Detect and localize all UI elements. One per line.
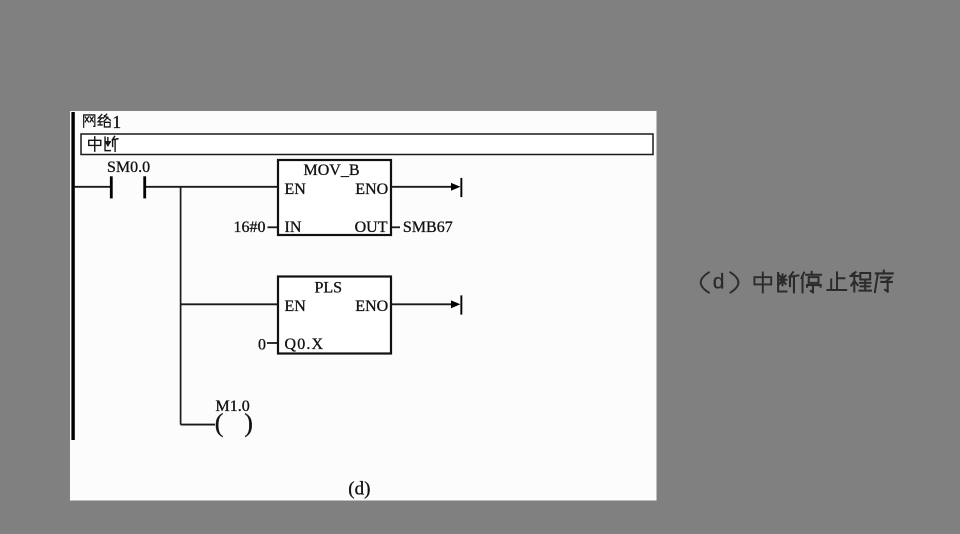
block PLS: [278, 277, 391, 354]
svg-text:OUT: OUT: [355, 219, 388, 236]
arrow terminator rung 2: [451, 300, 460, 308]
white panel: [70, 111, 657, 501]
wire ENO to arrow (rung 2): [391, 303, 453, 305]
label 网络1 (Network 1): [84, 114, 111, 127]
svg-text:16#0: 16#0: [234, 219, 266, 236]
branch vertical wire: [180, 187, 182, 425]
comment box 中断: [81, 134, 653, 155]
svg-text:SM0.0: SM0.0: [107, 159, 150, 176]
wire rail to contact: [75, 186, 111, 188]
svg-text:(d): (d): [348, 479, 370, 500]
pin dash IN: [268, 226, 278, 228]
pin dash OUT: [392, 226, 400, 228]
svg-text:1: 1: [112, 112, 121, 132]
pin dash Q0.X: [267, 342, 277, 344]
svg-text:d: d: [713, 271, 725, 294]
svg-text:): ): [244, 408, 253, 437]
svg-text:ENO: ENO: [355, 181, 388, 198]
arrow terminator rung 1: [451, 183, 460, 191]
svg-text:SMB67: SMB67: [403, 219, 453, 236]
wire branch to coil (rung 3): [181, 424, 215, 426]
contact SM0.0 (normally open): [110, 176, 113, 198]
svg-text:0: 0: [258, 336, 266, 353]
svg-text:EN: EN: [285, 298, 307, 315]
svg-text:(: (: [215, 408, 224, 437]
wire contact to MOV_B EN: [146, 186, 278, 188]
svg-text:MOV_B: MOV_B: [304, 162, 360, 179]
power rail (left bus bar): [71, 112, 74, 440]
svg-text:Q0.X: Q0.X: [285, 336, 324, 353]
svg-text:PLS: PLS: [315, 279, 343, 296]
svg-text:EN: EN: [285, 181, 307, 198]
svg-text:ENO: ENO: [355, 298, 388, 315]
wire ENO to arrow (rung 1): [391, 186, 453, 188]
caption （d）中断停止程序: [701, 272, 739, 292]
svg-text:IN: IN: [285, 219, 302, 236]
wire branch to PLS EN (rung 2): [181, 303, 278, 305]
block MOV_B: [278, 160, 391, 235]
